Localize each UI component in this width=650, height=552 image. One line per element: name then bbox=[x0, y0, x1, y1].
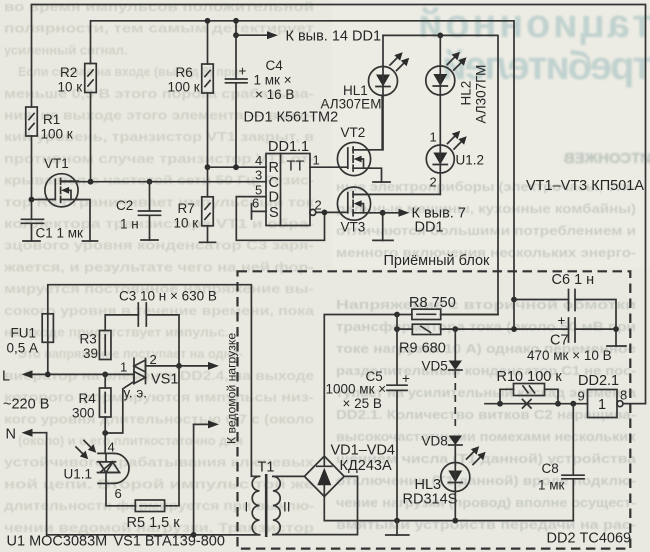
node R10 right bbox=[555, 401, 561, 407]
wire HL3 to common rail bbox=[454, 492, 456, 521]
wire supply rail 2 bbox=[91, 21, 515, 329]
wire D feedback from pin 2 bbox=[236, 197, 324, 241]
wire DD2 output to top rail bbox=[623, 403, 646, 405]
svg-text:U1 МОС3083М: U1 МОС3083М bbox=[7, 534, 108, 550]
svg-text:VD5: VD5 bbox=[422, 359, 448, 374]
winding II of T1 bbox=[273, 476, 280, 534]
svg-text:чение нагрузки (провод) вполне: чение нагрузки (провод) вполне осущест- bbox=[336, 495, 636, 510]
svg-text:С3 10 н × 630 В: С3 10 н × 630 В bbox=[119, 289, 217, 304]
svg-text:отключении (Т1 данной) вроде п: отключении (Т1 данной) вроде подклю- bbox=[336, 473, 636, 488]
dashed wire VD6 VD7 bbox=[454, 371, 456, 431]
node R2-VT1 drain bbox=[88, 179, 94, 185]
svg-text:2: 2 bbox=[430, 175, 437, 190]
svg-text:FU1: FU1 bbox=[11, 326, 37, 341]
resistor R8 bbox=[412, 309, 441, 319]
node C4 supply bbox=[233, 18, 239, 24]
svg-text:R7: R7 bbox=[178, 201, 195, 216]
wire pin 2 output to VT3 gate bbox=[316, 211, 348, 213]
wire HL1 HL2 top rail bbox=[383, 35, 498, 314]
node C5 bottom bbox=[394, 518, 400, 524]
svg-text:C2: C2 bbox=[116, 198, 133, 213]
terminal L with arrow bbox=[31, 373, 135, 375]
wire R9 leads and C7 rail bbox=[397, 328, 569, 330]
ground C2 bbox=[141, 239, 158, 241]
triac VS1 bbox=[134, 360, 146, 372]
LED HL1 bbox=[382, 35, 384, 66]
svg-text:R8 750: R8 750 bbox=[409, 295, 456, 311]
node VT3 source bbox=[380, 210, 386, 216]
svg-text:VT3: VT3 bbox=[341, 220, 366, 235]
resistor R6 bbox=[202, 64, 214, 93]
svg-text:VT1–VT3 КП501А: VT1–VT3 КП501А bbox=[526, 178, 644, 194]
svg-text:S: S bbox=[269, 205, 279, 221]
svg-text:470 мк × 10 В: 470 мк × 10 В bbox=[527, 348, 612, 363]
svg-text:кого уровня длительностью 0,7: кого уровня длительностью 0,7 с (около bbox=[4, 411, 314, 426]
svg-text:трансформатора тока (около 50: трансформатора тока (около 50 мВ при bbox=[336, 319, 636, 334]
svg-text:1: 1 bbox=[430, 130, 437, 145]
svg-text:6: 6 bbox=[252, 196, 259, 211]
svg-text:~220 В: ~220 В bbox=[3, 397, 49, 413]
wire DD2 input bbox=[485, 403, 588, 405]
ground C6 C7 bbox=[615, 329, 617, 346]
wire R pin bbox=[208, 166, 267, 168]
node C6 rail join bbox=[511, 297, 517, 303]
svg-text:VS1 ВТА139-800: VS1 ВТА139-800 bbox=[114, 534, 225, 550]
capacitor C7 polarized bbox=[569, 318, 576, 342]
terminal N with arrow bbox=[31, 432, 47, 434]
svg-text:39: 39 bbox=[83, 346, 98, 361]
svg-text:+: + bbox=[239, 64, 247, 79]
resistor R4 bbox=[99, 388, 111, 417]
svg-text:10 к: 10 к bbox=[58, 80, 83, 95]
node rail B join bbox=[511, 326, 517, 332]
svg-text:D: D bbox=[269, 190, 279, 206]
diode VD8 bbox=[449, 436, 462, 446]
capacitor C1 bbox=[22, 219, 44, 241]
svg-text:II: II bbox=[283, 500, 291, 515]
wire VT3 source to ground bbox=[371, 213, 383, 241]
flip-flop DD1.1 bbox=[266, 154, 310, 226]
svg-text:300: 300 bbox=[72, 406, 95, 421]
svg-text:R: R bbox=[269, 160, 279, 176]
svg-text:VS1: VS1 bbox=[151, 372, 178, 388]
svg-text:Приёмный блок: Приёмный блок bbox=[384, 253, 491, 269]
svg-text:Т1: Т1 bbox=[258, 460, 275, 476]
node gate R4 U1.1 bbox=[102, 430, 108, 436]
svg-text:Это напряжение поступает на од: Это напряжение поступает на одно- bbox=[18, 346, 243, 361]
transistor VT2 bbox=[337, 142, 370, 175]
svg-text:+: + bbox=[402, 371, 410, 386]
arrow to pin 7 DD1 bbox=[383, 212, 401, 214]
wire VS1 pin2 to load arrow bbox=[146, 365, 180, 367]
svg-text:HL2: HL2 bbox=[459, 81, 474, 106]
svg-text:АЛ307ЕМ: АЛ307ЕМ bbox=[321, 97, 382, 112]
wire R8 leads bbox=[397, 314, 498, 316]
svg-text:VD8: VD8 bbox=[422, 434, 448, 449]
break mark x bbox=[523, 400, 532, 409]
wire N to bottom rail bbox=[47, 433, 260, 535]
wire VS1 gate bbox=[105, 382, 134, 434]
resistor R9 bbox=[412, 324, 440, 334]
svg-text:× 16 В: × 16 В bbox=[255, 87, 294, 102]
node C4-R pin bbox=[233, 164, 239, 170]
svg-text:N: N bbox=[6, 427, 16, 443]
svg-text:(около) и с его плиткостаточно: (около) и с его плиткостаточно для bbox=[18, 433, 243, 448]
svg-text:ТТ: ТТ bbox=[287, 159, 305, 175]
svg-text:С6 1 н: С6 1 н bbox=[552, 272, 595, 288]
svg-text:DD1.1: DD1.1 bbox=[268, 139, 309, 155]
svg-text:R1: R1 bbox=[43, 112, 60, 127]
wire plus node vertical bbox=[396, 315, 398, 386]
resistor R2 bbox=[85, 64, 97, 93]
svg-text:2: 2 bbox=[315, 198, 322, 213]
wire R7 bottom to ground bbox=[207, 226, 209, 243]
svg-text:КД243А: КД243А bbox=[340, 458, 392, 474]
capacitor C3 bbox=[138, 303, 146, 326]
node VT1 gate bbox=[29, 197, 35, 203]
capacitor C8 bbox=[562, 404, 584, 521]
wire VT3 drain to U1.2 cathode bbox=[353, 193, 440, 195]
pin 2 inverter circle bbox=[310, 209, 316, 215]
inverter output circle bbox=[617, 401, 623, 407]
capacitor C4 polarized bbox=[226, 79, 248, 83]
svg-text:1 мк ×: 1 мк × bbox=[254, 73, 292, 88]
wire R4 leads bbox=[104, 374, 106, 453]
resistor R1 bbox=[26, 107, 38, 136]
svg-text:1000 мк ×: 1000 мк × bbox=[326, 382, 387, 397]
resistor R3 bbox=[99, 331, 111, 360]
svg-text:1: 1 bbox=[598, 397, 606, 413]
wire VT2 source to ground bbox=[371, 168, 382, 182]
node C8 top bbox=[570, 401, 576, 407]
svg-text:R2: R2 bbox=[60, 65, 77, 80]
node C6 C7 ground bbox=[613, 326, 619, 332]
LED HL2 bbox=[439, 35, 441, 66]
inverter DD2.1 bbox=[588, 390, 618, 418]
svg-text:которого формируются импульсы: которого формируются импульсы низ- bbox=[4, 390, 314, 405]
node R6 supply bbox=[205, 18, 211, 24]
LED HL3 bbox=[454, 445, 456, 463]
svg-text:9: 9 bbox=[578, 389, 585, 404]
svg-text:R9 680: R9 680 bbox=[399, 341, 446, 357]
svg-text:на входе присутствует импульс.: на входе присутствует импульс. bbox=[4, 325, 229, 340]
wire T1 primary bottom bbox=[194, 534, 260, 536]
svg-text:× 25 В: × 25 В bbox=[343, 396, 382, 411]
node HL2 top bbox=[437, 33, 443, 39]
node R10 left bbox=[497, 401, 503, 407]
wire R6 bottom through to R7 top bbox=[207, 93, 209, 197]
node VD5 top bbox=[452, 326, 458, 332]
resistor R10 bbox=[500, 389, 558, 403]
svg-text:у. э.: у. э. bbox=[124, 386, 148, 401]
capacitor C2 bbox=[139, 182, 161, 240]
wire S pin to ground bbox=[252, 210, 267, 212]
node HL3 bottom bbox=[452, 518, 458, 524]
svg-text:DD1: DD1 bbox=[415, 220, 444, 236]
optocoupler LED U1.2 bbox=[426, 145, 454, 173]
svg-text:R4: R4 bbox=[79, 391, 97, 406]
wire bridge minus to common rail bbox=[324, 497, 573, 521]
fuse FU1 bbox=[42, 314, 53, 343]
wire U1.1 pin6 to R5 bbox=[106, 483, 135, 505]
svg-text:10 к: 10 к bbox=[174, 216, 199, 231]
svg-text:R6: R6 bbox=[176, 65, 193, 80]
svg-text:4: 4 bbox=[255, 153, 262, 168]
transistor VT3 bbox=[337, 187, 370, 220]
wire U1.2 cathode bbox=[439, 173, 441, 194]
svg-text:U1.2: U1.2 bbox=[456, 153, 485, 168]
svg-text:усиленный сигнал.: усиленный сигнал. bbox=[4, 42, 127, 57]
svg-text:во время импульсов положительн: во время импульсов положительной bbox=[4, 0, 314, 14]
svg-text:100 к: 100 к bbox=[41, 127, 73, 142]
svg-text:К выв. 14 DD1: К выв. 14 DD1 bbox=[286, 29, 382, 45]
svg-text:RD314S: RD314S bbox=[403, 492, 458, 508]
wire pin 1 output to VT2 gate bbox=[310, 166, 348, 168]
svg-text:VT1: VT1 bbox=[44, 156, 69, 171]
svg-text:L: L bbox=[2, 369, 10, 385]
wire R3 top to C3 bbox=[105, 315, 138, 331]
svg-text:VD1–VD4: VD1–VD4 bbox=[331, 443, 395, 459]
resistor R7 bbox=[202, 197, 214, 226]
wire +supply top rail to DD2 output bbox=[32, 5, 646, 404]
wire FU1 bottom bbox=[47, 342, 49, 374]
svg-text:1: 1 bbox=[313, 153, 320, 168]
capacitor C5 polarized bbox=[387, 385, 407, 520]
ground R7 bbox=[200, 241, 216, 243]
wire T1 secondary top to bridge bbox=[273, 475, 305, 477]
svg-text:I: I bbox=[245, 500, 249, 515]
node C2 top bbox=[147, 179, 153, 185]
svg-text:3: 3 bbox=[255, 168, 262, 183]
svg-text:C1 1 мк: C1 1 мк bbox=[36, 226, 84, 241]
svg-text:R5 1,5 к: R5 1,5 к bbox=[127, 515, 181, 531]
svg-text:отличаются большими потреблени: отличаются большими потреблением и bbox=[336, 223, 636, 238]
wire R5 to VS1 pin2 rail bbox=[165, 366, 179, 506]
wire bridge plus to R8 R9 node bbox=[324, 315, 397, 457]
T1 core bbox=[265, 474, 268, 537]
bridge rectifier VD1-VD4 bbox=[304, 456, 344, 496]
svg-text:АЛ307ГМ: АЛ307ГМ bbox=[474, 65, 489, 124]
wire C3 to VS1 anode rail bbox=[146, 315, 179, 366]
node R3 R4 bbox=[102, 372, 108, 378]
svg-text:DD2 ТС4069: DD2 ТС4069 bbox=[547, 531, 632, 547]
wire C4 branch bbox=[235, 21, 237, 167]
svg-text:жается, и результате чего на н: жается, и результате чего на ней фор- bbox=[3, 259, 314, 274]
svg-text:U1.1: U1.1 bbox=[64, 467, 93, 482]
wire R1 bottom to VT1 gate and C1 bbox=[31, 136, 33, 219]
ground S pin bbox=[251, 204, 253, 219]
svg-text:К ведомой нагрузке: К ведомой нагрузке bbox=[225, 333, 239, 444]
wire VT1 gate lead bbox=[32, 199, 56, 201]
node VS1 pin2 rail bbox=[176, 363, 182, 369]
svg-text:2: 2 bbox=[150, 352, 157, 367]
wire T1 secondary bottom to bridge bbox=[273, 476, 358, 534]
svg-text:С7: С7 bbox=[550, 333, 569, 349]
ground C1 bbox=[23, 240, 40, 242]
svg-text:1 мк: 1 мк bbox=[538, 478, 565, 493]
wire R6 top bbox=[207, 21, 209, 64]
svg-text:4: 4 bbox=[108, 440, 115, 455]
arrow to pin 14 DD1 bbox=[236, 34, 269, 36]
ground VT1 source bbox=[83, 240, 98, 242]
optocoupler phototriac U1.1 bbox=[98, 452, 114, 454]
wire FU1 top to T1 primary bbox=[48, 285, 260, 477]
ground VT2 source bbox=[373, 181, 390, 183]
svg-text:R3: R3 bbox=[80, 332, 97, 347]
svg-text:6: 6 bbox=[115, 486, 122, 501]
ground common rail bbox=[396, 521, 398, 535]
node C4 to pin14 arrow bbox=[233, 32, 239, 38]
node load branch bbox=[191, 532, 197, 538]
transistor VT1 bbox=[45, 174, 78, 207]
svg-text:DD2.1: DD2.1 bbox=[578, 373, 619, 389]
svg-text:тационной: тационной bbox=[418, 2, 650, 46]
svg-text:+: + bbox=[558, 313, 566, 328]
wire HL2 cathode to U1.2 anode bbox=[439, 95, 441, 145]
resistor R5 bbox=[135, 500, 164, 512]
arrow to load lower bbox=[193, 424, 195, 534]
node R9 left bbox=[394, 326, 400, 332]
svg-text:100 к: 100 к bbox=[168, 80, 200, 95]
arrow to load upper bbox=[179, 365, 210, 367]
wire VT1 drain to DD1.1 pin C bbox=[62, 181, 266, 183]
svg-text:крывается с частотой сети 50 Г: крывается с частотой сети 50 Гц. Резис- bbox=[4, 173, 314, 188]
svg-text:0,5 А: 0,5 А bbox=[7, 341, 39, 356]
svg-text:1: 1 bbox=[120, 360, 127, 375]
svg-text:C4: C4 bbox=[266, 58, 284, 73]
svg-text:ИТСОНЖЕВ: ИТСОНЖЕВ bbox=[564, 150, 650, 167]
wire VT2 drain bbox=[353, 96, 382, 150]
svg-text:R10 100 к: R10 100 к bbox=[497, 369, 563, 385]
ground VT3 source bbox=[373, 239, 393, 241]
svg-text:VT2: VT2 bbox=[341, 125, 366, 140]
svg-text:С8: С8 bbox=[542, 461, 559, 476]
diode VD5 bbox=[454, 329, 456, 360]
wire R2 bottom to VT1 drain bbox=[90, 93, 92, 182]
receiver block dashed border bbox=[238, 271, 631, 548]
svg-text:1 н: 1 н bbox=[120, 217, 139, 232]
node R8 left bbox=[394, 312, 400, 318]
node pin2 feedback bbox=[322, 210, 328, 216]
node FU1-L bbox=[45, 372, 51, 378]
wire HL1 cathode to VT2 drain bbox=[382, 96, 384, 150]
capacitor C6 bbox=[514, 300, 616, 330]
wire VT1 source to ground bbox=[78, 200, 90, 242]
svg-text:DD1 К561ТМ2: DD1 К561ТМ2 bbox=[244, 110, 339, 126]
node R6-R7 to pin R bbox=[205, 164, 211, 170]
